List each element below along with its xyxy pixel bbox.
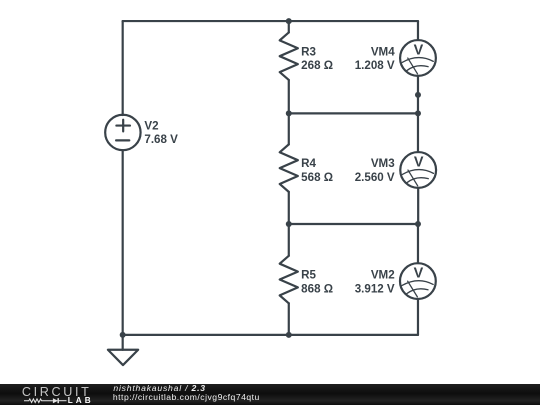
- wire middle column rail1 to R4: [288, 113, 290, 144]
- wire R5 bottom to bottom rail: [288, 303, 290, 335]
- node bottom rail / R5 junction: [286, 332, 292, 338]
- resistor R3: [280, 32, 298, 80]
- wire left column lower: [122, 150, 124, 335]
- svg-text:568 Ω: 568 Ω: [301, 171, 333, 184]
- wire left column upper: [122, 21, 124, 115]
- footer bar: [0, 384, 540, 405]
- voltmeter VM2: [400, 263, 436, 299]
- svg-text:V: V: [414, 265, 424, 282]
- footer line2 url: [113, 393, 260, 402]
- svg-text:2.560 V: 2.560 V: [355, 171, 395, 184]
- node rail1 right junction: [415, 110, 421, 116]
- svg-text:3.912 V: 3.912 V: [355, 283, 395, 296]
- svg-text:V: V: [414, 154, 424, 171]
- node VM4 terminal junction: [415, 92, 421, 98]
- wire VM4 bottom to rail1: [417, 76, 419, 114]
- wire rail2: [289, 223, 418, 225]
- svg-text:7.68 V: 7.68 V: [144, 133, 178, 146]
- wire rail1: [289, 112, 418, 114]
- voltmeter VM4: [400, 40, 436, 76]
- svg-text:868 Ω: 868 Ω: [301, 283, 333, 296]
- svg-text:R4: R4: [301, 157, 316, 170]
- resistor R5: [280, 256, 298, 304]
- svg-text:R5: R5: [301, 269, 316, 282]
- svg-text:VM3: VM3: [371, 157, 395, 170]
- resistor R4: [280, 144, 298, 192]
- svg-text:R3: R3: [301, 45, 316, 58]
- svg-text:V2: V2: [144, 119, 158, 132]
- wire bottom rail: [123, 334, 418, 336]
- svg-text:VM2: VM2: [371, 269, 395, 282]
- wire R4 bottom to rail2: [288, 192, 290, 224]
- logo LAB text: [68, 397, 94, 405]
- wire right column top stub: [417, 21, 419, 40]
- node rail2 left junction: [286, 221, 292, 227]
- voltmeter VM3: [400, 152, 436, 188]
- logo CIRCUIT text: [22, 386, 92, 399]
- node rail1 left junction: [286, 110, 292, 116]
- svg-text:VM4: VM4: [371, 45, 395, 58]
- node rail2 right junction: [415, 221, 421, 227]
- wire middle column top stub: [288, 21, 290, 32]
- logo resistor-diode symbol: [24, 397, 67, 405]
- wire VM3 bottom to rail2: [417, 188, 419, 224]
- wire rail2 to VM2: [417, 224, 419, 263]
- node bottom-left junction: [120, 332, 126, 338]
- ground: [108, 335, 138, 365]
- wire top rail: [123, 20, 418, 22]
- wire middle column rail2 to R5: [288, 224, 290, 256]
- svg-text:1.208 V: 1.208 V: [355, 59, 395, 72]
- wire VM2 bottom to bottom rail: [417, 299, 419, 335]
- wire R3 bottom to rail1: [288, 80, 290, 113]
- svg-text:V: V: [414, 42, 424, 59]
- node top rail / R3 junction: [286, 18, 292, 24]
- svg-text:268 Ω: 268 Ω: [301, 59, 333, 72]
- wire rail1 to VM3: [417, 113, 419, 152]
- footer line1 author: [113, 384, 205, 393]
- voltage source V2: [105, 115, 140, 150]
